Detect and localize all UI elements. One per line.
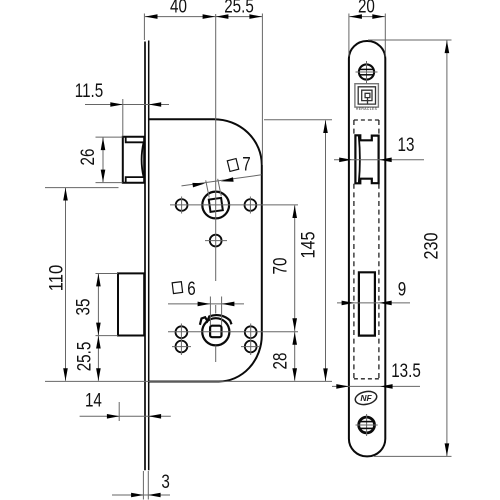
arrow 110 bottom: [63, 368, 68, 381]
ext line case bottom: [45, 380, 332, 382]
ext line plate right: [384, 14, 386, 57]
bottom screw v centerline: [366, 414, 368, 436]
svg-text:14: 14: [85, 389, 102, 411]
svg-text:25.5: 25.5: [73, 342, 95, 372]
left fixing hole: [176, 199, 188, 211]
arrow 3 left: [131, 493, 144, 498]
lower-left pair tick: [180, 324, 182, 356]
dim line 14: [80, 415, 171, 417]
top screw h centerline: [356, 71, 378, 73]
ext line plate bottom: [374, 455, 452, 457]
left hole tick: [181, 197, 183, 214]
arrow 70 bottom: [292, 318, 297, 331]
latch bolt lip steps: [126, 137, 144, 183]
svg-text:13: 13: [398, 133, 415, 155]
top screw: [359, 64, 374, 79]
arrow 7 left: [192, 183, 205, 188]
ext line 7 b: [218, 179, 222, 196]
arrow 230 bottom: [445, 443, 450, 456]
faceplate front view outline: [349, 41, 385, 456]
ext line 6 b: [221, 297, 223, 326]
latch front bevel line: [359, 136, 360, 183]
logo spiral outer: [358, 87, 375, 104]
arrow 35 top: [96, 274, 101, 287]
arrow 25.5L bottom: [96, 368, 101, 381]
ext line plate left: [348, 14, 350, 57]
svg-text:110: 110: [45, 265, 67, 291]
arrow 11.5 right: [149, 102, 162, 107]
arrow 9 right: [379, 301, 392, 306]
hidden case right dashed upper: [378, 120, 380, 135]
dim line 110: [65, 188, 67, 381]
svg-text:28: 28: [269, 353, 291, 370]
arrow 13.5 left: [336, 384, 349, 389]
follower 7mm square hole: [209, 198, 223, 212]
right hole tick: [249, 197, 251, 214]
deadbolt front cutout: [359, 272, 375, 335]
arrow 25.5L top: [96, 336, 101, 349]
center hole below follower: [210, 235, 222, 247]
arrow 20 left: [349, 14, 362, 19]
ext line deadbolt top: [96, 273, 118, 275]
arrow 145 top: [323, 120, 328, 133]
dim line 13.5: [332, 385, 420, 387]
svg-text:35: 35: [72, 299, 94, 316]
arrow 13 right: [379, 158, 392, 163]
HERACLES logo frame: [355, 84, 379, 107]
lower left fixing hole 1: [176, 326, 188, 338]
bottom screw slot lower: [360, 427, 374, 429]
NF logo oval: [354, 390, 378, 407]
arrow 9 left: [342, 301, 355, 306]
lower right fixing hole 2: [245, 341, 257, 353]
right fixing hole: [245, 199, 257, 211]
center hole tick: [205, 240, 227, 242]
arrow 25.5 right: [249, 14, 262, 19]
square symbol for 6: [172, 282, 182, 294]
arrow 40 left: [145, 14, 158, 19]
arrow 14 left: [107, 414, 120, 419]
arrow 28 top: [292, 332, 297, 345]
hidden case right dashed lower: [378, 184, 380, 379]
ext line deadbolt bottom: [96, 335, 118, 337]
arrow 7 right: [221, 177, 234, 182]
ext line plate top: [368, 39, 452, 41]
ext line plate front bottom: [142, 471, 144, 500]
dim line 6: [168, 303, 244, 305]
svg-text:26: 26: [76, 149, 98, 166]
dim line 3: [112, 494, 170, 496]
lower follower cam cap: [200, 315, 232, 325]
lower follower top tick: [215, 305, 217, 314]
svg-text:13.5: 13.5: [391, 359, 421, 381]
ext line 14: [118, 402, 120, 421]
arrow 13 left: [339, 158, 352, 163]
arrow 35 bottom: [96, 323, 101, 336]
svg-text:230: 230: [420, 232, 442, 259]
lower left fixing hole 2: [176, 341, 188, 353]
svg-text:70: 70: [269, 257, 291, 274]
lower follower circle: [202, 318, 229, 345]
dim line 40 and 25.5: [145, 16, 262, 18]
bottom screw slot upper: [360, 421, 374, 423]
latch bevel curve: [142, 142, 144, 177]
ext line plate back bottom: [147, 471, 149, 500]
lower-left pair htick: [172, 346, 191, 348]
logo spiral mid: [362, 90, 372, 100]
logo spiral inner: [365, 93, 370, 97]
ext line 110 top: [45, 187, 119, 189]
arrow 13.5 right: [380, 384, 393, 389]
svg-text:40: 40: [170, 0, 187, 17]
lower right fixing hole 1: [245, 326, 257, 338]
logo spiral connector: [367, 98, 369, 105]
svg-text:NF: NF: [360, 393, 372, 403]
ext line latch bottom: [96, 182, 123, 184]
latch bolt side view: [123, 137, 144, 183]
svg-text:25.5: 25.5: [224, 0, 254, 17]
svg-text:6: 6: [187, 277, 195, 299]
vertical axis centerline: [215, 14, 217, 281]
lower follower bottom tick: [215, 346, 217, 363]
lower-right pair htick: [241, 346, 260, 348]
ext line faceplate front: [143, 14, 145, 41]
faceplate side view back face: [148, 41, 150, 471]
dim line 145: [325, 120, 327, 381]
follower row centerline: [170, 204, 298, 206]
dim line 9: [337, 302, 410, 304]
arrow 3 right: [148, 493, 161, 498]
svg-text:20: 20: [358, 0, 375, 17]
arrow 40 right: [203, 14, 216, 19]
top screw slot lower: [360, 74, 374, 76]
dim line 70 and 28: [294, 205, 296, 380]
svg-text:7: 7: [242, 153, 250, 175]
arrow 26 bottom: [101, 170, 106, 183]
dim line 35 and 25.5: [97, 274, 99, 381]
svg-text:HERACLES: HERACLES: [356, 107, 378, 111]
square symbol for 7: [227, 159, 238, 172]
hidden case left dashed lower: [353, 184, 355, 379]
svg-text:145: 145: [297, 231, 319, 258]
arrow 230 top: [445, 41, 450, 54]
arrow 25.5 left: [216, 14, 229, 19]
handle follower circle: [202, 192, 229, 219]
ext line case right edge: [261, 14, 263, 166]
arrow 11.5 left: [110, 102, 123, 107]
lock case body outline: [149, 119, 262, 381]
dim line 7 slanted: [182, 175, 262, 186]
deadbolt row centerline: [168, 331, 298, 333]
svg-text:9: 9: [398, 278, 406, 300]
hidden case bottom dashed: [354, 378, 379, 380]
lower-right pair tick: [250, 324, 252, 356]
ext line latch top: [96, 136, 123, 138]
arrow 14 right: [149, 414, 162, 419]
ext line 7 a: [206, 180, 210, 197]
hidden case top dashed: [354, 119, 379, 121]
dim line 11.5: [85, 104, 169, 106]
arrow 26 top: [101, 138, 106, 151]
arrow 145 bottom: [323, 368, 328, 381]
arrow 110 top: [63, 188, 68, 201]
latch bolt front view: [355, 135, 378, 183]
faceplate side view front face: [144, 42, 146, 471]
svg-text:11.5: 11.5: [75, 79, 103, 101]
bottom screw: [359, 417, 375, 433]
arrow 28 bottom: [292, 368, 297, 381]
dim line 20: [349, 16, 385, 18]
arrow 6 left: [198, 302, 211, 307]
bottom screw h centerline: [356, 424, 378, 426]
arrow 20 right: [372, 14, 385, 19]
arrow 70 top: [292, 205, 297, 218]
ext line 6 a: [209, 297, 211, 326]
top screw v centerline: [366, 61, 368, 83]
dim line 26: [102, 138, 104, 183]
ext line latch face: [122, 99, 124, 136]
dim line 13: [334, 159, 424, 161]
dim line 230: [446, 41, 448, 457]
deadbolt side view: [118, 273, 144, 335]
lower follower 6mm square hole: [210, 326, 221, 338]
top screw slot upper: [360, 68, 374, 70]
ext line case top: [264, 119, 332, 121]
hidden case left dashed upper: [353, 120, 355, 135]
svg-text:3: 3: [161, 470, 169, 492]
arrow 6 right: [222, 302, 235, 307]
